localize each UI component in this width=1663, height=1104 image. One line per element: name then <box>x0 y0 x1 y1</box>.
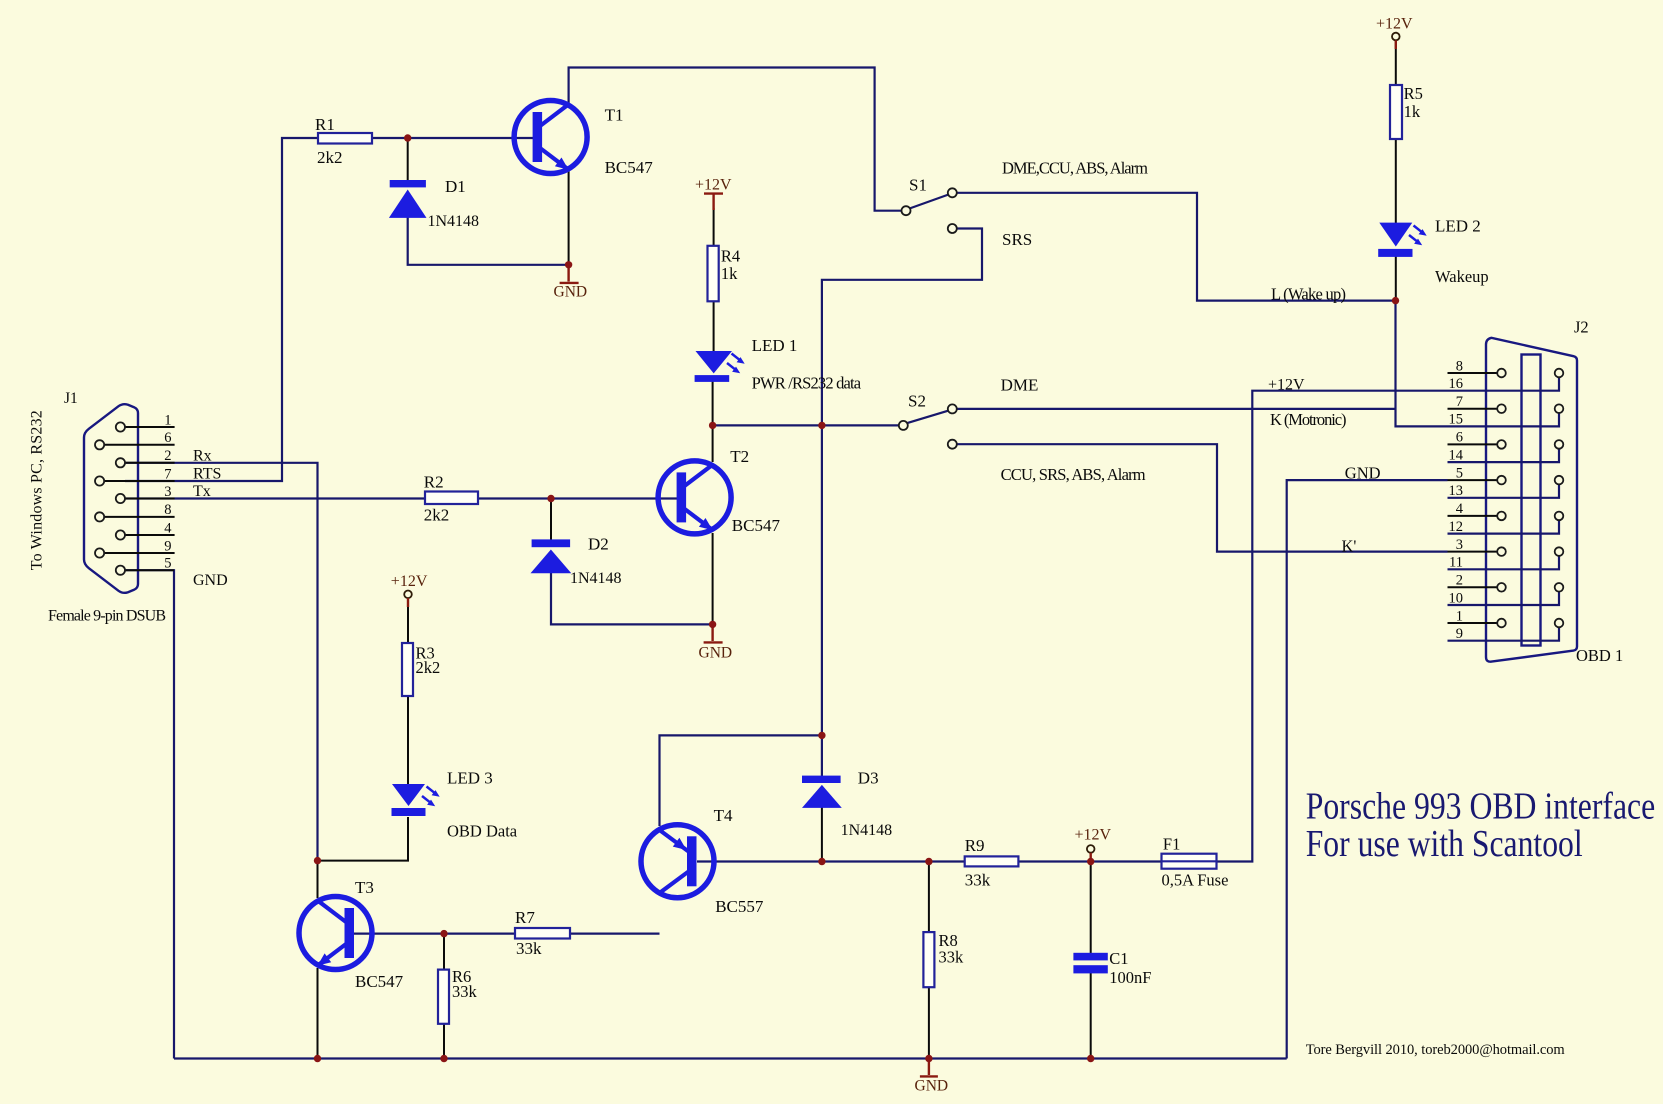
svg-text:Female 9-pin DSUB: Female 9-pin DSUB <box>48 608 166 625</box>
svg-text:11: 11 <box>1449 555 1463 571</box>
svg-text:GND: GND <box>699 645 733 662</box>
svg-text:RTS: RTS <box>193 466 221 483</box>
svg-text:12: 12 <box>1449 519 1464 535</box>
svg-text:J1: J1 <box>64 390 78 407</box>
resistor R6 <box>438 970 449 1024</box>
J1 pin 6 <box>95 440 175 449</box>
svg-text:T2: T2 <box>730 447 749 466</box>
transistor T1 BC547 <box>514 101 587 174</box>
svg-text:5: 5 <box>164 556 171 572</box>
wire +12V stem to R3 <box>407 598 409 644</box>
wire R9 right to F1 left <box>1018 860 1161 862</box>
wire R2 to T2 base <box>478 497 677 499</box>
wire ground rail <box>174 1057 1287 1059</box>
wire D3 anode down to T4 base node <box>821 807 823 862</box>
svg-text:LED 3: LED 3 <box>447 769 493 788</box>
svg-text:2: 2 <box>1456 573 1463 589</box>
svg-text:BC547: BC547 <box>732 516 781 535</box>
svg-text:S2: S2 <box>908 392 926 411</box>
wire RTS net J1.7 to R1 left <box>125 138 318 481</box>
svg-text:OBD 1: OBD 1 <box>1576 646 1623 665</box>
svg-text:4: 4 <box>164 520 172 536</box>
fuse F1 <box>1162 854 1217 869</box>
svg-text:16: 16 <box>1449 376 1464 392</box>
wire +12V stem to R4 <box>713 208 715 247</box>
svg-text:Tore Bergvill 2010, toreb2000@: Tore Bergvill 2010, toreb2000@hotmail.co… <box>1306 1042 1566 1058</box>
wire D2 cathode up to base node <box>550 499 552 541</box>
svg-text:GND: GND <box>554 284 588 301</box>
junction node T3 base/R6/R7 <box>440 930 447 937</box>
wire S1 throw SRS down to S2 pivot node <box>822 229 982 426</box>
wire R3 to LED3 <box>407 696 409 786</box>
wire R1 right to T1 base <box>372 137 534 139</box>
resistor R5 <box>1390 85 1402 139</box>
junction node R1/D1/T1 base <box>404 134 411 141</box>
wire T3 collector pin <box>317 861 319 898</box>
svg-text:1N4148: 1N4148 <box>570 570 622 587</box>
svg-text:1: 1 <box>164 412 171 428</box>
svg-text:L (Wake up): L (Wake up) <box>1271 285 1346 304</box>
svg-text:1N4148: 1N4148 <box>841 822 893 839</box>
wire C1 bottom to ground rail <box>1090 973 1092 1059</box>
wire Tx J1.3 to R2 <box>125 497 425 499</box>
svg-text:T1: T1 <box>605 106 624 125</box>
wire +12V stem to R5 <box>1395 41 1397 87</box>
svg-text:T4: T4 <box>714 806 733 825</box>
resistor R9 <box>965 856 1019 866</box>
svg-text:Tx: Tx <box>193 483 211 500</box>
svg-text:33k: 33k <box>965 871 991 890</box>
svg-text:LED 1: LED 1 <box>752 336 798 355</box>
J2 pin 2 <box>1448 583 1506 592</box>
svg-text:6: 6 <box>164 430 171 446</box>
svg-text:R5: R5 <box>1404 84 1423 103</box>
wire R7 right to T4 collector <box>570 932 660 934</box>
connector J1 body <box>84 404 138 593</box>
svg-text:+12V: +12V <box>695 177 732 194</box>
ground symbol at bottom rail <box>920 1059 938 1077</box>
J2 pin 15 <box>1448 404 1564 426</box>
wire T4 base to R9 left <box>697 860 965 862</box>
svg-text:33k: 33k <box>516 939 542 958</box>
svg-text:GND: GND <box>193 572 228 589</box>
svg-text:R9: R9 <box>965 836 985 855</box>
wire GND J1.5 down to ground rail <box>125 570 174 1058</box>
J1 pin 9 <box>95 548 175 557</box>
diode D2 1N4148 <box>531 539 572 573</box>
svg-text:BC547: BC547 <box>605 158 654 177</box>
svg-text:10: 10 <box>1449 590 1464 606</box>
svg-text:13: 13 <box>1449 483 1464 499</box>
svg-text:To Windows PC, RS232: To Windows PC, RS232 <box>29 410 46 570</box>
resistor R8 <box>923 932 934 987</box>
svg-text:1: 1 <box>1456 608 1463 624</box>
svg-text:1N4148: 1N4148 <box>428 213 480 230</box>
junction node R8/GND rail <box>925 1055 932 1062</box>
junction node T4 emitter/D3 <box>818 732 825 739</box>
J1 pin 4 <box>116 530 175 539</box>
resistor R3 <box>402 643 413 696</box>
svg-text:R1: R1 <box>315 115 335 134</box>
switch S2 <box>899 404 957 448</box>
svg-text:Porsche 993 OBD interface: Porsche 993 OBD interface <box>1306 785 1656 827</box>
svg-text:3: 3 <box>164 484 171 500</box>
J2 pin 7 <box>1448 404 1506 413</box>
J2 pin 3 <box>1448 547 1506 556</box>
junction node Rx/LED3/T3 collector <box>314 857 321 864</box>
svg-text:CCU, SRS, ABS, Alarm: CCU, SRS, ABS, Alarm <box>1001 465 1146 484</box>
LED2 <box>1378 223 1427 257</box>
power +12V at R9 (circle style) <box>1087 845 1095 861</box>
wire R6 top pin <box>443 934 445 970</box>
J2 pin 12 <box>1448 512 1564 534</box>
svg-text:PWR /RS232 data: PWR /RS232 data <box>752 374 862 393</box>
svg-text:D2: D2 <box>588 535 609 554</box>
diode D3 1N4148 <box>802 776 842 808</box>
svg-text:GND: GND <box>915 1078 949 1095</box>
svg-text:8: 8 <box>1456 358 1463 374</box>
svg-text:2: 2 <box>164 448 171 464</box>
svg-text:15: 15 <box>1449 412 1464 428</box>
svg-text:33k: 33k <box>939 948 965 967</box>
wire F1 right up to J2 pin16 (+12V) <box>1217 391 1448 862</box>
resistor R2 <box>425 492 478 505</box>
junction node R2/D2/T2 base <box>547 495 554 502</box>
transistor T4 BC557 <box>641 825 714 898</box>
svg-text:+12V: +12V <box>391 573 428 590</box>
wire R8 bottom to ground rail <box>928 987 930 1059</box>
svg-text:1k: 1k <box>721 264 738 283</box>
J1 pin 5 <box>116 566 174 575</box>
resistor R1 <box>318 133 372 144</box>
wire R6 bottom to ground rail <box>443 1024 445 1059</box>
junction node C1 rail <box>1087 1055 1094 1062</box>
svg-text:For use with Scantool: For use with Scantool <box>1306 823 1583 865</box>
wire T4 emitter up and to D3 node <box>660 735 822 826</box>
svg-text:T3: T3 <box>355 878 374 897</box>
junction node LED1/T2 collector <box>709 422 716 429</box>
wire node to R7 left <box>444 932 515 934</box>
svg-text:100nF: 100nF <box>1109 968 1151 987</box>
wire LED1 cathode down to T2 collector <box>712 382 714 463</box>
svg-text:R7: R7 <box>515 908 535 927</box>
ground symbol at T1 <box>560 265 579 283</box>
wire LED3 cathode to Rx node <box>318 817 409 861</box>
J1 pin 7 <box>95 476 175 485</box>
connector J2 body <box>1486 338 1577 662</box>
wire T3 emitter to ground rail <box>317 968 319 1059</box>
wire D1 anode to T1 emitter node <box>408 217 569 265</box>
resistor R7 <box>515 928 570 939</box>
wire Rx J1.2 down to T3/LED3 node <box>125 463 318 861</box>
junction node LED2/L wire <box>1392 297 1399 304</box>
svg-text:S1: S1 <box>909 176 927 195</box>
wire R8 top pin <box>928 862 930 933</box>
svg-text:D3: D3 <box>858 769 879 788</box>
svg-text:LED 2: LED 2 <box>1435 217 1481 236</box>
svg-text:8: 8 <box>164 502 171 518</box>
svg-text:+12V: +12V <box>1268 377 1305 394</box>
svg-text:9: 9 <box>164 538 171 554</box>
ground symbol at T2 <box>704 624 723 642</box>
junction node R6 rail <box>440 1055 447 1062</box>
svg-text:OBD Data: OBD Data <box>447 822 518 841</box>
svg-text:R4: R4 <box>721 247 740 266</box>
svg-text:C1: C1 <box>1109 949 1128 968</box>
diode D1 1N4148 <box>389 180 427 218</box>
wire T1 emitter pin <box>568 171 570 265</box>
power +12V at R5 (circle style) <box>1392 33 1400 49</box>
J2 pin 1 <box>1448 619 1506 628</box>
svg-text:33k: 33k <box>452 982 478 1001</box>
svg-text:SRS: SRS <box>1002 230 1032 249</box>
transistor T3 BC547 <box>299 897 372 970</box>
svg-text:6: 6 <box>1456 430 1463 446</box>
switch S1 <box>902 188 957 233</box>
wire S1 throw DME,CCU,ABS,Alarm to L(Wake up) node <box>957 193 1396 301</box>
J2 pin 9 <box>1448 619 1564 641</box>
svg-text:J2: J2 <box>1574 318 1589 337</box>
svg-text:F1: F1 <box>1163 835 1180 854</box>
J2 slot <box>1522 355 1541 646</box>
svg-text:9: 9 <box>1456 626 1463 642</box>
wire GND J2.5 down to ground rail <box>1287 480 1448 1058</box>
svg-text:Rx: Rx <box>193 448 212 465</box>
svg-text:5: 5 <box>1456 465 1463 481</box>
svg-text:D1: D1 <box>445 177 466 196</box>
wire T1 collector to S1 pivot <box>569 68 902 211</box>
wire T3 base to R6/R7 node <box>354 932 444 934</box>
svg-text:BC547: BC547 <box>355 972 404 991</box>
LED3 <box>392 784 440 816</box>
wire T2 emitter down <box>712 533 714 624</box>
junction node D3/T4 base <box>818 858 825 865</box>
junction node R8 top <box>925 858 932 865</box>
wire D2 anode to T2 emitter node <box>551 573 713 625</box>
svg-text:7: 7 <box>1456 394 1463 410</box>
J2 pin 8 <box>1448 369 1506 378</box>
svg-text:GND: GND <box>1345 464 1381 483</box>
svg-text:0,5A Fuse: 0,5A Fuse <box>1162 871 1229 890</box>
svg-text:BC557: BC557 <box>715 897 764 916</box>
J1 pin 8 <box>95 512 175 521</box>
svg-text:Wakeup: Wakeup <box>1435 267 1489 286</box>
svg-text:K (Motronic): K (Motronic) <box>1270 410 1347 429</box>
wire R5 to LED2 <box>1395 139 1397 223</box>
wire C1 top pin <box>1090 862 1092 954</box>
capacitor C1 <box>1073 953 1107 974</box>
J2 pin 10 <box>1448 583 1564 605</box>
J2 pin 16 <box>1448 369 1564 391</box>
J2 pin 13 <box>1448 476 1564 498</box>
power +12V at R4 (bar style) <box>704 194 723 210</box>
J1 pin 2 <box>116 458 175 467</box>
power +12V at R3 (circle style) <box>404 591 412 608</box>
wire S2 throw CCU,SRS to K' J2.3 <box>957 444 1448 551</box>
junction node +12V/C1/F1 <box>1087 858 1094 865</box>
svg-text:4: 4 <box>1456 501 1464 517</box>
wire R4 to LED1 <box>713 301 715 352</box>
svg-text:K': K' <box>1342 537 1357 556</box>
junction node SRS vertical <box>818 422 825 429</box>
J2 pin 6 <box>1448 440 1506 449</box>
J1 pin 3 <box>116 494 175 503</box>
resistor R4 <box>708 246 719 301</box>
J2 pin 4 <box>1448 512 1506 521</box>
svg-text:+12V: +12V <box>1075 827 1112 844</box>
svg-text:3: 3 <box>1456 537 1463 553</box>
svg-text:+12V: +12V <box>1376 16 1413 33</box>
svg-text:1k: 1k <box>1404 102 1421 121</box>
svg-text:DME: DME <box>1001 376 1039 395</box>
junction node T2 emitter/GND <box>709 621 716 628</box>
wire D1 cathode up to node <box>407 138 409 181</box>
wire SRS node down to D3 cathode <box>821 425 823 776</box>
svg-text:2k2: 2k2 <box>424 506 450 525</box>
svg-text:DME,CCU, ABS, Alarm: DME,CCU, ABS, Alarm <box>1002 159 1148 178</box>
J2 pin 14 <box>1448 440 1564 462</box>
svg-text:2k2: 2k2 <box>317 148 343 167</box>
wire S2 throw DME to K(Motronic) J2.15 <box>957 408 1396 410</box>
wire node to S2 pivot <box>713 424 899 426</box>
svg-text:R2: R2 <box>424 473 444 492</box>
J2 pin 11 <box>1448 547 1564 569</box>
J2 pin 5 <box>1448 476 1506 485</box>
svg-text:7: 7 <box>164 466 171 482</box>
J1 pin 1 <box>116 422 175 431</box>
junction node T1 emitter/GND <box>565 261 572 268</box>
junction node T3 emitter rail <box>314 1055 321 1062</box>
svg-text:14: 14 <box>1449 447 1464 463</box>
wire LED2 cathode to L node <box>1395 257 1397 301</box>
transistor T2 BC547 <box>658 461 731 534</box>
svg-text:2k2: 2k2 <box>416 658 441 677</box>
wire L node down to J2 pin15 <box>1396 301 1448 427</box>
LED1 <box>695 351 745 382</box>
